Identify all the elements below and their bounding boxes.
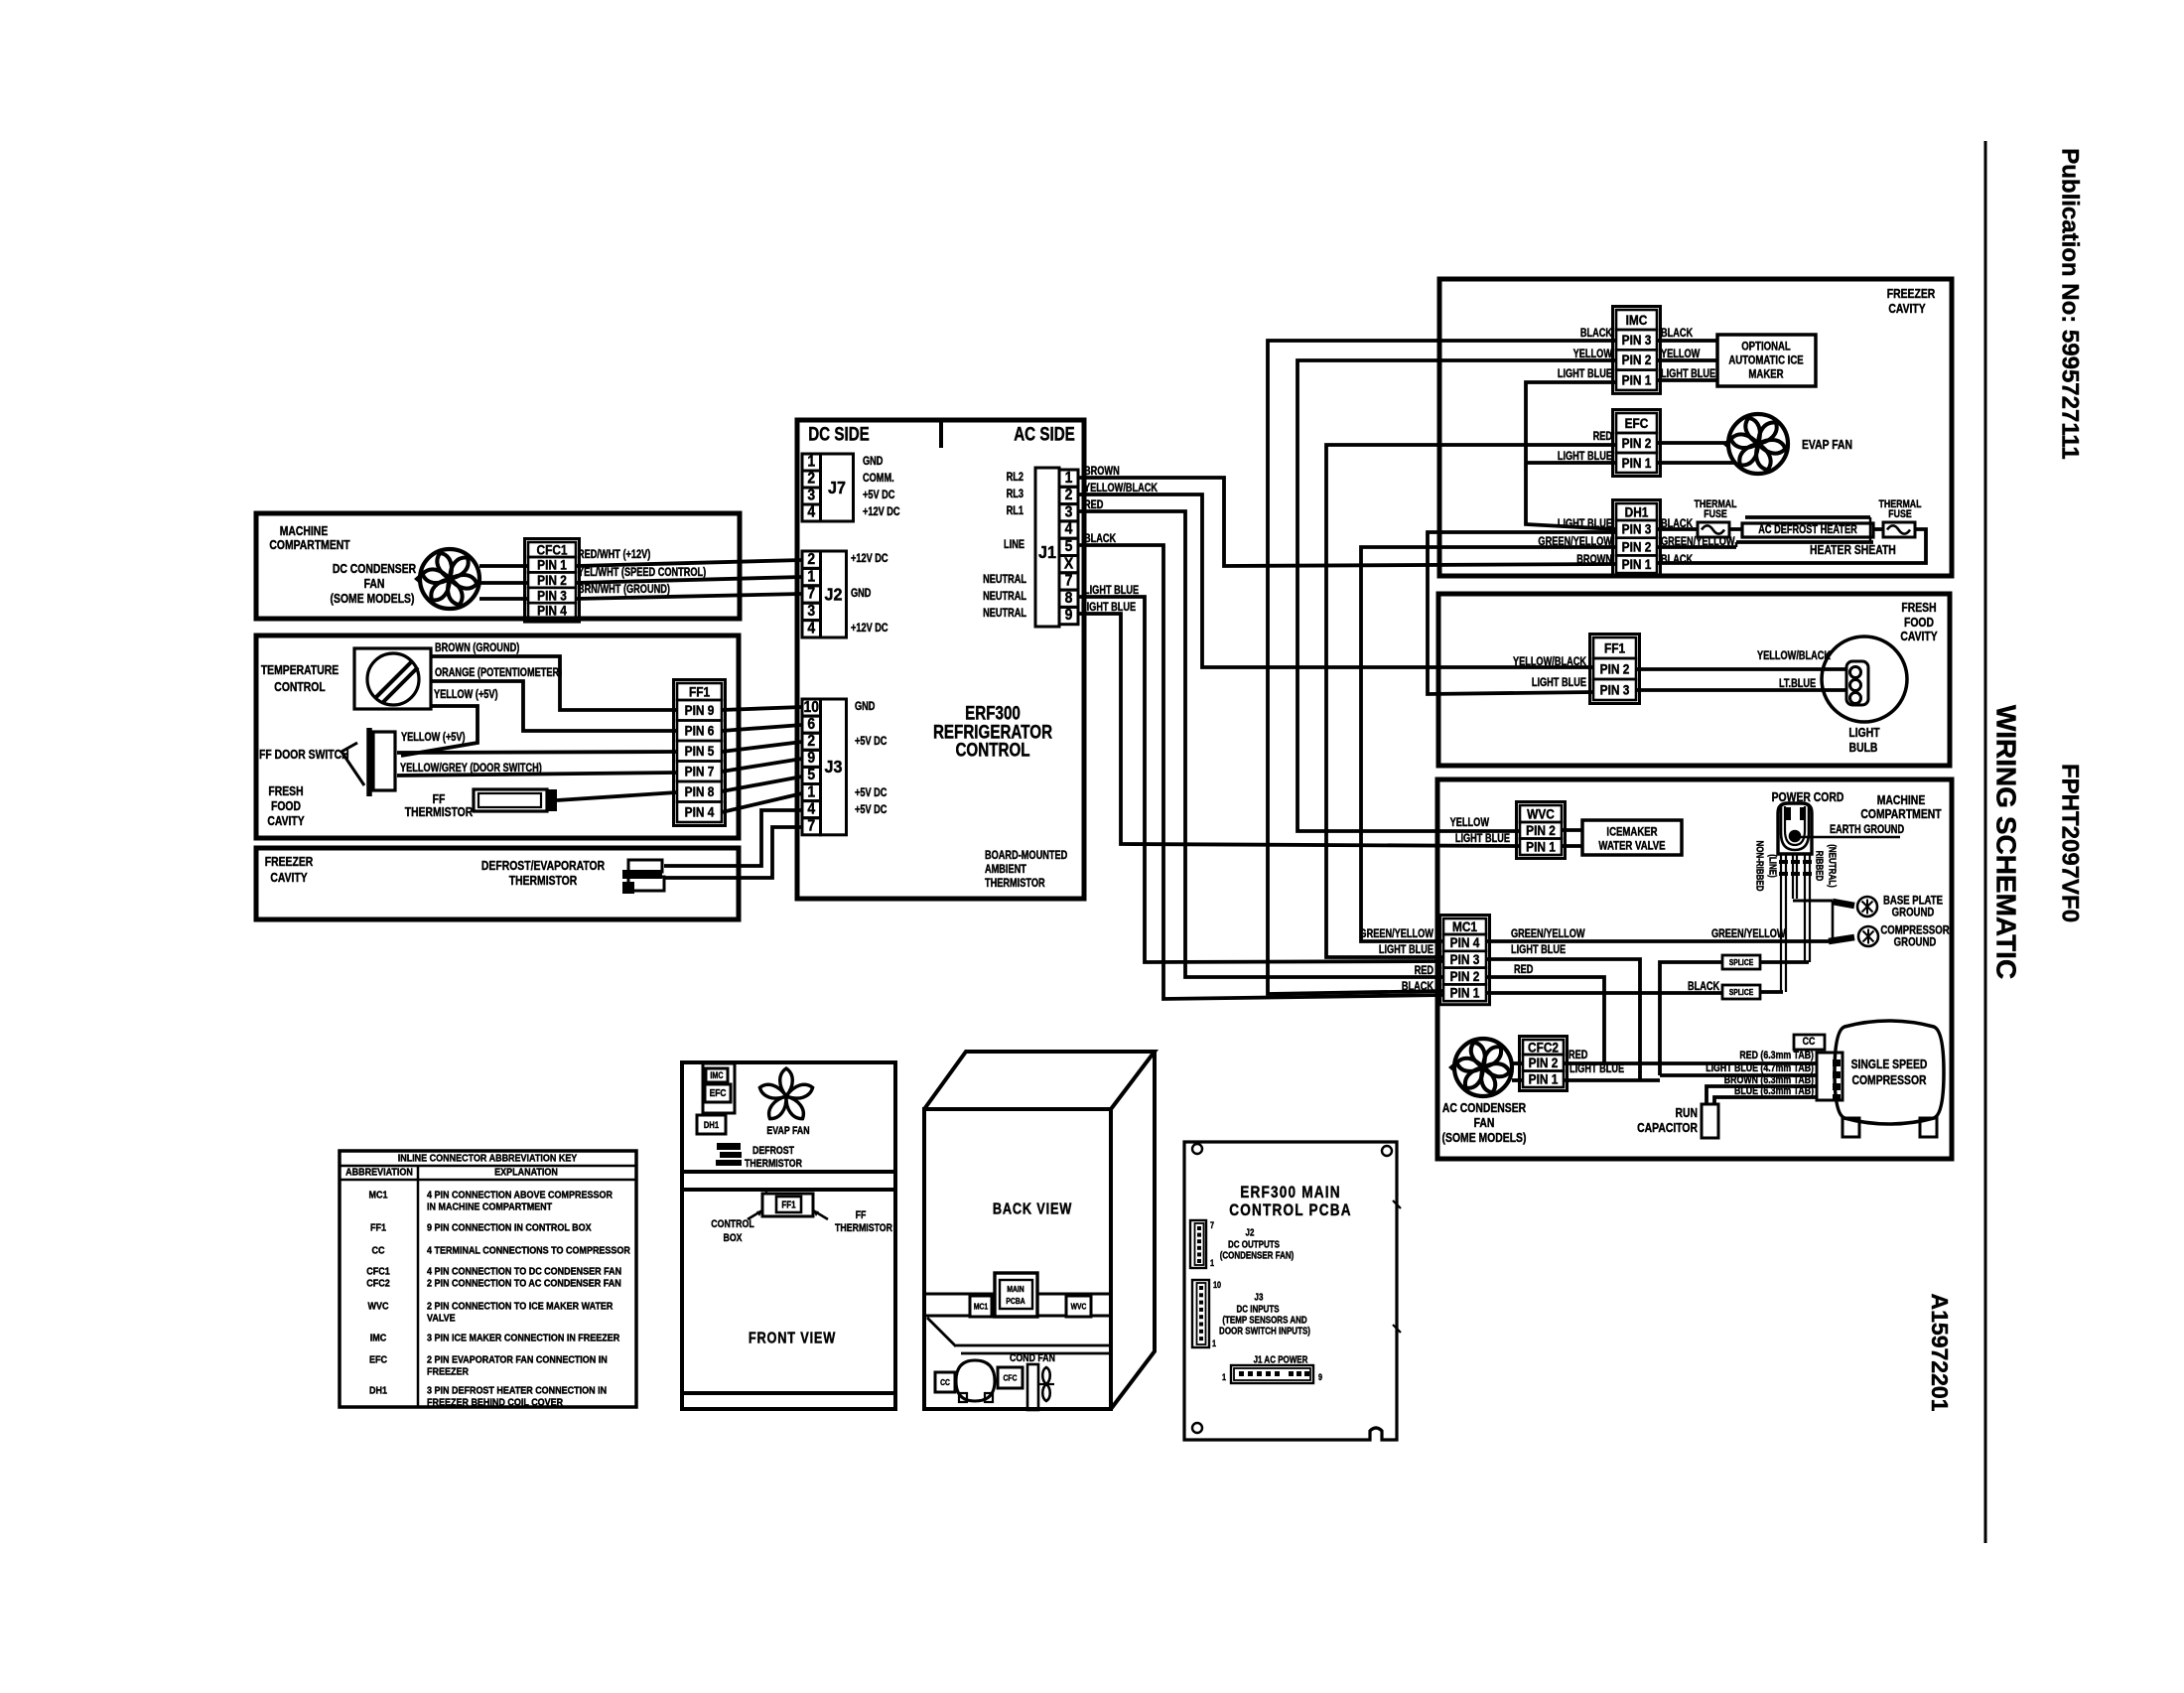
svg-text:ICEMAKER: ICEMAKER: [1606, 825, 1657, 838]
svg-text:CFC2: CFC2: [1528, 1040, 1559, 1056]
svg-text:CAVITY: CAVITY: [270, 871, 307, 885]
svg-text:FF1: FF1: [781, 1199, 795, 1209]
key row CC: [372, 1245, 631, 1257]
svg-text:THERMISTOR: THERMISTOR: [835, 1222, 892, 1234]
svg-text:J1 AC POWER: J1 AC POWER: [1254, 1353, 1308, 1364]
svg-text:BLACK: BLACK: [1661, 328, 1694, 340]
wire yellow/black J1-2 to FF1(right) pin2: [1078, 494, 1593, 667]
svg-text:YELLOW (+5V): YELLOW (+5V): [434, 689, 498, 701]
svg-text:FREEZER: FREEZER: [427, 1366, 469, 1378]
front view bottom line: [682, 1391, 895, 1395]
label ERF300 MAIN CONTROL PCBA: [1229, 1184, 1352, 1220]
svg-text:(SOME MODELS): (SOME MODELS): [1442, 1131, 1527, 1145]
wire light blue trunk IMC pin1 to EFC pin1 to DH1 pin3: [1526, 382, 1616, 529]
FF1 connector (front view): [762, 1191, 813, 1216]
svg-text:3 PIN ICE MAKER CONNECTION IN: 3 PIN ICE MAKER CONNECTION IN FREEZER: [427, 1333, 619, 1344]
svg-text:J2: J2: [1246, 1226, 1255, 1237]
wire IMC pin1 to ice maker: [1657, 378, 1717, 382]
label MACHINE COMPARTMENT (right): [1860, 793, 1942, 821]
svg-text:AMBIENT: AMBIENT: [985, 864, 1026, 876]
heater sheath bottom line: [1736, 540, 1873, 544]
wire to compressor ground lug: [1829, 937, 1854, 941]
svg-text:WVC: WVC: [1071, 1302, 1087, 1312]
wire FF1 pin9 to J3 pin10: [722, 707, 802, 710]
CC box (back view): [935, 1372, 955, 1392]
svg-text:FF1: FF1: [370, 1222, 387, 1234]
icemaker water valve box: [1582, 820, 1682, 855]
label ICEMAKER WATER VALVE: [1598, 825, 1665, 852]
svg-text:8: 8: [1065, 590, 1073, 607]
svg-text:COND FAN: COND FAN: [1010, 1352, 1055, 1364]
svg-text:10: 10: [803, 699, 819, 716]
wire light blue splice to compressor tab: [1660, 1073, 1817, 1077]
svg-text:FOOD: FOOD: [1904, 616, 1934, 630]
label COMPRESSOR GROUND: [1880, 923, 1949, 948]
svg-text:1: 1: [1065, 470, 1073, 487]
svg-text:RIBBED: RIBBED: [1814, 851, 1825, 882]
svg-text:+5V DC: +5V DC: [855, 787, 887, 799]
wire splice lt-blue to neutral cord: [1760, 960, 1809, 964]
svg-text:6: 6: [807, 716, 815, 733]
front view outline: [682, 1062, 895, 1409]
defrost/evaporator thermistor symbol: [622, 860, 664, 894]
label BASE PLATE GROUND: [1883, 894, 1943, 918]
svg-text:PIN 9: PIN 9: [685, 702, 715, 718]
connector J1: [1035, 468, 1078, 627]
svg-text:IMC: IMC: [370, 1333, 387, 1344]
wire IMC pin3 to ice maker: [1657, 339, 1717, 343]
wire black trunk IMC pin3 to MC1 pin1: [1268, 341, 1616, 994]
wire MC1 pin4 to ground lugs: [1486, 939, 1833, 943]
svg-text:PIN 1: PIN 1: [1622, 556, 1652, 572]
back view lower diagonal: [927, 1318, 1111, 1353]
svg-text:FF1: FF1: [1604, 640, 1625, 656]
svg-text:PIN 3: PIN 3: [537, 588, 567, 604]
svg-text:CFC1: CFC1: [366, 1266, 390, 1278]
power cord earth conductor: [1791, 854, 1833, 901]
svg-text:PIN 4: PIN 4: [1450, 934, 1480, 950]
svg-text:PIN 2: PIN 2: [537, 572, 567, 588]
wire brown J1-1 to DH1 pin1: [1078, 478, 1616, 566]
front view divider lines: [682, 1172, 895, 1190]
compressor foot right: [1920, 1118, 1937, 1137]
svg-text:THERMISTOR: THERMISTOR: [405, 805, 474, 819]
svg-text:YELLOW: YELLOW: [1450, 817, 1489, 829]
svg-text:PIN 3: PIN 3: [1450, 951, 1480, 967]
svg-text:DC OUTPUTS: DC OUTPUTS: [1228, 1238, 1280, 1249]
svg-text:FOOD: FOOD: [271, 799, 301, 813]
svg-text:WVC: WVC: [1527, 806, 1555, 822]
svg-text:WIRING SCHEMATIC: WIRING SCHEMATIC: [1991, 705, 2022, 979]
evap fan symbol: [1722, 414, 1788, 474]
svg-text:ORANGE (POTENTIOMETER): ORANGE (POTENTIOMETER): [435, 667, 562, 679]
svg-text:POWER CORD: POWER CORD: [1772, 790, 1844, 804]
wire switch to FF1 pin7: [397, 773, 677, 776]
svg-text:BACK VIEW: BACK VIEW: [993, 1200, 1072, 1218]
svg-text:SPLICE: SPLICE: [1729, 957, 1754, 967]
svg-text:OPTIONAL: OPTIONAL: [1741, 340, 1791, 353]
wire MC1 pin3 to CFC2 pin1 trunk: [1486, 959, 1640, 1080]
svg-text:5: 5: [807, 768, 815, 784]
optional automatic ice maker box: [1717, 335, 1816, 386]
svg-text:4: 4: [807, 621, 816, 637]
wire defrost thermistor to J3 pin7: [664, 827, 802, 878]
J3 connector (PCBA): [1192, 1280, 1221, 1348]
svg-text:IN MACHINE COMPARTMENT: IN MACHINE COMPARTMENT: [427, 1201, 552, 1213]
svg-text:2: 2: [807, 551, 815, 568]
svg-text:MAKER: MAKER: [1748, 367, 1783, 380]
svg-text:GREEN/YELLOW: GREEN/YELLOW: [1538, 536, 1612, 548]
wire red J1-3 to MC1 pin2: [1078, 511, 1443, 977]
wire DH1 pin3 to thermal fuse: [1657, 527, 1698, 531]
svg-text:3: 3: [1065, 504, 1073, 521]
svg-text:(NEUTRAL): (NEUTRAL): [1827, 844, 1838, 888]
svg-text:VALVE: VALVE: [427, 1313, 456, 1325]
wire EFC pin2 to evap fan: [1657, 441, 1729, 445]
wire MC1 pin2 to red junction: [1486, 977, 1604, 1063]
svg-text:PIN 2: PIN 2: [1600, 661, 1630, 677]
svg-text:MC1: MC1: [369, 1190, 389, 1201]
svg-text:WVC: WVC: [368, 1301, 389, 1313]
defrost thermistor icon (front view): [716, 1143, 742, 1166]
svg-text:PIN 8: PIN 8: [685, 783, 715, 799]
connector J3: [802, 699, 847, 835]
svg-text:NEUTRAL: NEUTRAL: [983, 591, 1026, 603]
connector MC1: [1440, 916, 1490, 1005]
svg-text:PIN 3: PIN 3: [1622, 521, 1652, 537]
svg-text:AC SIDE: AC SIDE: [1014, 423, 1075, 445]
svg-text:J2: J2: [824, 585, 842, 605]
back view 3d box: [924, 1052, 1155, 1409]
svg-text:ABBREVIATION: ABBREVIATION: [345, 1167, 413, 1179]
svg-text:COMM.: COMM.: [863, 473, 894, 485]
section box machine compartment (right): [1437, 779, 1952, 1159]
svg-text:RED: RED: [1415, 965, 1434, 977]
connector DH1: [1613, 500, 1661, 577]
svg-text:7: 7: [1065, 573, 1073, 590]
svg-text:DH1: DH1: [369, 1385, 388, 1397]
base plate ground lug: [1857, 897, 1877, 917]
svg-text:PIN 2: PIN 2: [1450, 968, 1480, 984]
wire DH1 pin2 to heater sheath: [1657, 542, 1736, 547]
key row IMC: [370, 1333, 620, 1344]
label THERMAL FUSE (left): [1695, 498, 1737, 520]
svg-text:X: X: [1064, 556, 1073, 573]
svg-text:CONTROL: CONTROL: [711, 1218, 753, 1230]
wire CFC1 pin1 to J2 pin 2: [576, 560, 802, 566]
svg-text:RED: RED: [1514, 964, 1534, 976]
svg-text:1: 1: [807, 569, 815, 586]
svg-text:CFC2: CFC2: [366, 1278, 389, 1290]
svg-text:EFC: EFC: [1625, 415, 1649, 431]
svg-text:BOX: BOX: [723, 1232, 742, 1244]
svg-text:RL2: RL2: [1007, 472, 1024, 484]
wire red CFC2 pin2 to compressor tab: [1564, 1061, 1817, 1065]
wire WVC pin1 to water valve: [1562, 844, 1582, 848]
back view band lines: [924, 1294, 1111, 1316]
svg-text:2: 2: [1065, 487, 1073, 503]
svg-text:PIN 2: PIN 2: [1622, 539, 1652, 555]
svg-text:EFC: EFC: [710, 1087, 727, 1099]
svg-text:YELLOW (+5V): YELLOW (+5V): [401, 732, 466, 744]
wire WVC pin2 to water valve: [1562, 828, 1582, 832]
svg-text:MACHINE: MACHINE: [280, 524, 329, 538]
svg-text:GROUND: GROUND: [1892, 906, 1935, 918]
front view top-left connector group box: [703, 1063, 735, 1113]
CFC box (back view): [998, 1367, 1023, 1388]
svg-text:4 PIN CONNECTION ABOVE COMPRES: 4 PIN CONNECTION ABOVE COMPRESSOR: [427, 1190, 613, 1201]
svg-text:+5V DC: +5V DC: [863, 490, 895, 501]
svg-text:PIN 7: PIN 7: [685, 764, 715, 779]
light bulb symbol: [1822, 636, 1907, 722]
svg-text:7: 7: [1210, 1220, 1214, 1230]
svg-text:2: 2: [807, 733, 815, 750]
svg-text:RED (6.3mm TAB): RED (6.3mm TAB): [1739, 1050, 1814, 1061]
wire yellow: pot down to switch: [401, 706, 478, 756]
wire to base plate ground lug: [1833, 902, 1854, 906]
svg-text:PCBA: PCBA: [1006, 1296, 1025, 1306]
svg-text:DH1: DH1: [1625, 504, 1649, 520]
wire fan to CFC1 pin1: [479, 564, 528, 568]
compressor ground lug: [1858, 926, 1878, 946]
wire fuse to AC defrost heater: [1729, 527, 1742, 531]
svg-text:BULB: BULB: [1849, 741, 1878, 755]
svg-text:BLACK: BLACK: [1402, 981, 1434, 993]
svg-text:LIGHT BLUE: LIGHT BLUE: [1558, 518, 1612, 530]
svg-text:J3: J3: [1255, 1291, 1264, 1302]
svg-text:SPLICE: SPLICE: [1729, 987, 1754, 997]
wire FF1 pin8 to J3 pin5: [722, 776, 802, 791]
svg-text:RL3: RL3: [1007, 489, 1024, 500]
wire right fuse back to DH1 pin1: [1657, 529, 1926, 563]
svg-text:TEMPERATURE: TEMPERATURE: [261, 663, 339, 677]
label box EFC (front view): [705, 1084, 731, 1102]
ground link vertical: [1832, 901, 1835, 941]
svg-text:CFC1: CFC1: [536, 542, 567, 558]
svg-text:+5V DC: +5V DC: [855, 804, 887, 816]
svg-text:9: 9: [1318, 1372, 1322, 1382]
svg-text:4: 4: [1065, 521, 1074, 538]
svg-text:PIN 1: PIN 1: [1526, 839, 1556, 855]
thermal fuse (left): [1698, 522, 1729, 537]
connector CFC2: [1520, 1037, 1568, 1091]
svg-text:CFC: CFC: [1004, 1373, 1018, 1383]
wire light blue J1-8 to MC1 pin3: [1078, 597, 1443, 962]
svg-text:PIN 4: PIN 4: [537, 603, 567, 619]
svg-text:FAN: FAN: [364, 577, 385, 591]
svg-text:FAN: FAN: [1474, 1116, 1495, 1130]
label THERMAL FUSE (right): [1879, 498, 1922, 520]
label box IMC (front view): [706, 1068, 728, 1082]
svg-text:RL1: RL1: [1007, 505, 1024, 517]
FF door switch symbol: [341, 728, 395, 796]
label MACHINE COMPARTMENT: [269, 524, 350, 552]
svg-text:2 PIN CONNECTION TO ICE MAKER: 2 PIN CONNECTION TO ICE MAKER WATER: [427, 1301, 614, 1313]
margin rule line: [1984, 141, 1987, 1543]
splice (light blue): [1722, 955, 1760, 969]
label CONTROL BOX: [711, 1218, 753, 1244]
svg-text:PIN 2: PIN 2: [1529, 1055, 1559, 1070]
AC defrost heater box: [1742, 523, 1873, 537]
svg-text:DOOR SWITCH INPUTS): DOOR SWITCH INPUTS): [1219, 1325, 1310, 1336]
arrow FF thermistor to FF1: [813, 1210, 828, 1219]
svg-text:LIGHT BLUE: LIGHT BLUE: [1511, 944, 1566, 956]
label DEFROST/EVAPORATOR THERMISTOR: [481, 859, 606, 888]
MAIN PCBA box (back view): [995, 1273, 1037, 1317]
svg-text:PIN 5: PIN 5: [685, 743, 715, 759]
label FF THERMISTOR (front view): [835, 1209, 892, 1234]
svg-text:PIN 6: PIN 6: [685, 723, 715, 739]
svg-text:DC INPUTS: DC INPUTS: [1236, 1303, 1279, 1314]
connector EFC: [1613, 410, 1661, 477]
svg-text:CONTROL: CONTROL: [955, 739, 1029, 761]
svg-text:COMPRESSOR: COMPRESSOR: [1851, 1073, 1927, 1087]
svg-text:EARTH GROUND: EARTH GROUND: [1830, 824, 1905, 836]
svg-text:WATER VALVE: WATER VALVE: [1598, 839, 1665, 852]
svg-text:9: 9: [807, 750, 815, 767]
svg-text:+12V DC: +12V DC: [863, 506, 900, 518]
svg-text:BRN/WHT (GROUND): BRN/WHT (GROUND): [578, 584, 670, 596]
svg-text:9: 9: [1065, 608, 1073, 625]
label LIGHT BULB: [1848, 726, 1880, 755]
svg-text:INLINE CONNECTOR ABBREVIATION: INLINE CONNECTOR ABBREVIATION KEY: [398, 1153, 578, 1165]
label DEFROST THERMISTOR (front view): [745, 1145, 802, 1170]
svg-text:GREEN/YELLOW: GREEN/YELLOW: [1359, 928, 1433, 940]
svg-text:(TEMP SENSORS AND: (TEMP SENSORS AND: [1222, 1314, 1307, 1325]
wire FF1r pin3 to light bulb: [1636, 688, 1846, 692]
wire fan to CFC1 pin2: [479, 581, 528, 585]
label TEMPERATURE CONTROL: [261, 663, 339, 694]
svg-text:LIGHT BLUE: LIGHT BLUE: [1558, 451, 1612, 463]
divider tick top center: [939, 420, 943, 448]
svg-text:4: 4: [807, 504, 816, 521]
wire FF1 pin6 to J3 pin6: [722, 725, 802, 731]
svg-text:4: 4: [807, 801, 816, 818]
svg-text:EVAP FAN: EVAP FAN: [766, 1125, 809, 1137]
cond fan icon (back view): [1027, 1364, 1054, 1410]
wire light blue CFC2 pin1: [1564, 1078, 1660, 1082]
svg-text:SINGLE SPEED: SINGLE SPEED: [1851, 1058, 1928, 1071]
compressor blob (back view): [956, 1360, 995, 1402]
AC condenser fan symbol: [1448, 1039, 1512, 1096]
svg-text:FREEZER: FREEZER: [265, 855, 314, 869]
DC condenser fan symbol: [414, 549, 479, 609]
svg-text:LIGHT BLUE: LIGHT BLUE: [1532, 677, 1586, 689]
svg-text:YELLOW/BLACK: YELLOW/BLACK: [1513, 656, 1586, 668]
svg-text:4 TERMINAL CONNECTIONS TO COMP: 4 TERMINAL CONNECTIONS TO COMPRESSOR: [427, 1245, 630, 1257]
J1 AC power connector (PCBA): [1222, 1365, 1322, 1383]
run capacitor: [1702, 1104, 1718, 1138]
heater sheath top line: [1745, 515, 1870, 519]
wire orange: pot to FF1 pin6: [431, 681, 677, 731]
svg-text:AUTOMATIC ICE: AUTOMATIC ICE: [1728, 353, 1803, 366]
svg-text:FUSE: FUSE: [1888, 508, 1912, 520]
svg-text:BLACK: BLACK: [1580, 328, 1613, 340]
connector J7: [802, 454, 854, 521]
wire fan to CFC1 pin3: [479, 597, 528, 601]
svg-text:BROWN: BROWN: [1576, 554, 1612, 566]
svg-text:PIN 1: PIN 1: [1450, 985, 1480, 1001]
svg-text:DEFROST/EVAPORATOR: DEFROST/EVAPORATOR: [481, 859, 606, 873]
svg-text:THERMISTOR: THERMISTOR: [509, 874, 578, 888]
power cord line conductor (non-ribbed): [1779, 854, 1788, 992]
svg-text:7: 7: [807, 818, 815, 835]
svg-text:LT.BLUE: LT.BLUE: [1779, 678, 1816, 690]
svg-text:+12V DC: +12V DC: [851, 623, 888, 635]
compressor foot left: [1843, 1118, 1859, 1137]
label RIBBED (NEUTRAL): [1814, 844, 1838, 888]
svg-text:CONTROL: CONTROL: [274, 680, 325, 694]
svg-text:1: 1: [807, 784, 815, 801]
label SINGLE SPEED COMPRESSOR: [1851, 1058, 1928, 1087]
svg-text:2 PIN EVAPORATOR FAN CONNECTIO: 2 PIN EVAPORATOR FAN CONNECTION IN: [427, 1354, 608, 1366]
arrow control box to FF1: [748, 1210, 762, 1219]
svg-text:YELLOW/BLACK: YELLOW/BLACK: [1757, 650, 1831, 662]
connector WVC: [1517, 802, 1566, 859]
svg-text:YELLOW: YELLOW: [1573, 349, 1612, 360]
svg-text:EFC: EFC: [369, 1354, 387, 1366]
svg-text:BOARD-MOUNTED: BOARD-MOUNTED: [985, 850, 1068, 862]
svg-text:IMC: IMC: [1626, 312, 1648, 328]
wire capacitor to blue tab: [1714, 1097, 1817, 1104]
label NON-RIBBED (LINE): [1754, 840, 1778, 891]
svg-text:ERF300 MAIN: ERF300 MAIN: [1240, 1184, 1341, 1202]
svg-text:PIN 1: PIN 1: [1529, 1071, 1559, 1087]
svg-text:LIGHT BLUE: LIGHT BLUE: [1455, 833, 1510, 845]
wire black J1-5 to MC1 pin1: [1078, 545, 1443, 999]
svg-text:(LINE): (LINE): [1767, 854, 1778, 878]
svg-text:PIN 4: PIN 4: [685, 804, 715, 820]
wire FF1 pin4 to J3 pin1: [722, 793, 802, 812]
svg-text:PIN 1: PIN 1: [1622, 372, 1652, 388]
svg-text:MC1: MC1: [1452, 918, 1477, 934]
label RUN CAPACITOR: [1637, 1106, 1698, 1135]
power cord plug symbol: [1778, 803, 1812, 854]
svg-text:CAPACITOR: CAPACITOR: [1637, 1121, 1698, 1135]
svg-text:LIGHT: LIGHT: [1848, 726, 1880, 740]
key row MC1: [369, 1190, 614, 1212]
label FREEZER CAVITY: [265, 855, 314, 885]
svg-text:4 PIN CONNECTION TO DC CONDENS: 4 PIN CONNECTION TO DC CONDENSER FAN: [427, 1266, 621, 1278]
connector CFC1: [525, 539, 580, 623]
wire yellow trunk IMC pin2 to WVC pin2: [1297, 360, 1616, 831]
svg-text:RED: RED: [1593, 431, 1613, 443]
inline connector abbreviation key table: [340, 1151, 636, 1407]
wire FF1 pin7 to J3 pin9: [722, 759, 802, 772]
temperature control potentiometer: [354, 648, 431, 709]
svg-text:PIN 2: PIN 2: [1622, 435, 1652, 451]
label ERF300 REFRIGERATOR CONTROL: [933, 702, 1053, 761]
wire light blue DH1 pin3 to FF1(right) pin3: [1428, 532, 1616, 694]
svg-text:1: 1: [1212, 1339, 1216, 1348]
svg-text:GND: GND: [851, 588, 872, 600]
wire FF1r pin2 to light bulb: [1636, 667, 1846, 671]
label CC: [1794, 1035, 1825, 1050]
svg-text:NEUTRAL: NEUTRAL: [983, 574, 1026, 586]
label FREEZER CAVITY (right): [1887, 287, 1936, 316]
svg-text:PIN 2: PIN 2: [1622, 352, 1652, 367]
svg-text:DC SIDE: DC SIDE: [808, 423, 870, 445]
svg-text:PIN 1: PIN 1: [1622, 455, 1652, 471]
svg-text:FPHT2097VF0: FPHT2097VF0: [2057, 764, 2084, 922]
svg-text:J1: J1: [1038, 542, 1056, 562]
svg-text:NEUTRAL: NEUTRAL: [983, 608, 1026, 620]
svg-text:3: 3: [807, 488, 815, 504]
svg-text:COMPARTMENT: COMPARTMENT: [1860, 807, 1942, 821]
key row FF1: [370, 1222, 592, 1234]
wire fan to CFC2 pin1: [1512, 1078, 1523, 1082]
svg-text:CAVITY: CAVITY: [1900, 630, 1937, 643]
